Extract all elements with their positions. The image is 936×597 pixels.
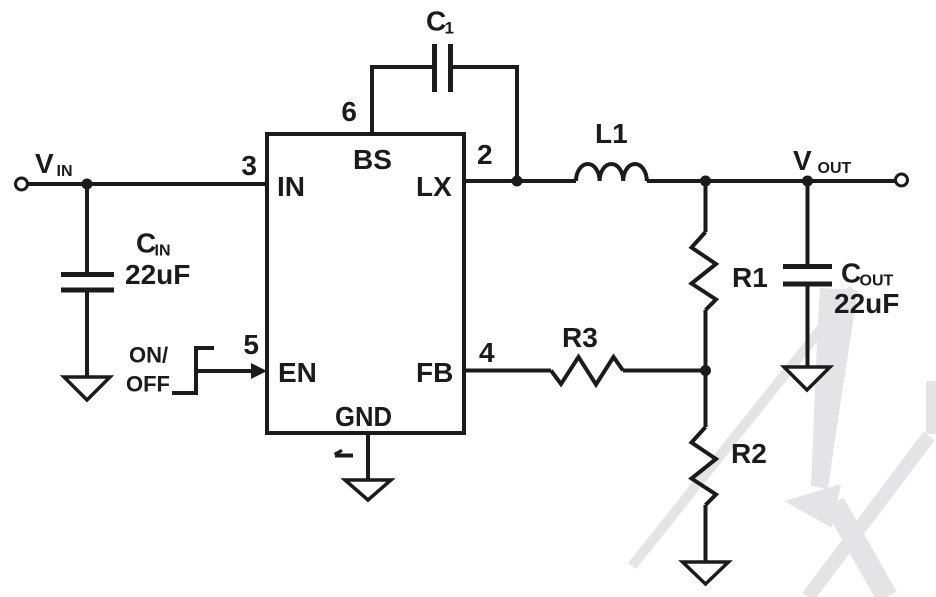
svg-text:GND: GND <box>335 401 392 432</box>
svg-text:V: V <box>35 148 54 179</box>
wire EN arrow <box>196 369 252 373</box>
wire R1 bottom <box>704 310 708 371</box>
watermark stroke D2 (tapered swoosh) <box>811 288 858 489</box>
capacitor COUT <box>783 267 832 285</box>
capacitor C1 <box>435 44 451 92</box>
svg-text:1: 1 <box>445 19 454 38</box>
label C1 <box>426 6 454 38</box>
watermark arrowhead <box>784 484 841 528</box>
wire input rail <box>29 182 268 186</box>
wire CIN bottom <box>85 292 89 377</box>
svg-text:C: C <box>841 258 861 289</box>
svg-text:R3: R3 <box>562 322 598 353</box>
watermark stroke D3 (thick X arm) <box>834 503 887 597</box>
wire R2 top <box>704 371 708 428</box>
svg-text:5: 5 <box>243 329 259 360</box>
watermark stroke D4 (X arm) <box>808 436 929 597</box>
arrowhead into EN <box>251 363 267 379</box>
wire GND pin <box>366 433 370 480</box>
svg-text:L1: L1 <box>595 118 628 149</box>
watermark stroke D1 (thin diagonal) <box>632 289 853 566</box>
svg-text:4: 4 <box>479 337 495 368</box>
svg-text:2: 2 <box>477 139 493 170</box>
resistor R3 <box>551 357 623 385</box>
op-amp U1 (regulator IC body) <box>267 134 464 433</box>
ground (CIN) <box>64 377 110 400</box>
svg-text:C: C <box>426 6 446 37</box>
wire C1 to LX node <box>451 67 518 181</box>
node VOUT terminal <box>896 174 908 186</box>
resistor R2 <box>692 427 717 505</box>
svg-text:BS: BS <box>353 144 392 175</box>
svg-text:R2: R2 <box>731 438 767 469</box>
node input junction <box>82 179 93 190</box>
label CIN <box>136 228 171 260</box>
svg-text:OFF: OFF <box>126 372 170 397</box>
resistor R1 <box>692 232 717 310</box>
wire CIN top <box>85 184 89 273</box>
node R1 junction <box>700 176 711 187</box>
wire R3 to node <box>623 369 706 373</box>
wire COUT bottom <box>806 286 810 367</box>
label VOUT <box>793 145 852 177</box>
svg-text:22uF: 22uF <box>834 288 899 319</box>
wire R2 bottom <box>704 505 708 562</box>
node FB junction <box>700 365 711 376</box>
svg-text:OUT: OUT <box>860 273 894 290</box>
svg-text:C: C <box>136 228 156 259</box>
capacitor CIN <box>61 275 114 291</box>
ground (COUT) <box>784 367 830 390</box>
svg-text:ON/: ON/ <box>129 343 168 368</box>
label VIN <box>35 148 73 180</box>
wire COUT top <box>806 181 810 265</box>
wire FB <box>464 369 551 373</box>
svg-text:OUT: OUT <box>818 160 852 177</box>
svg-text:IN: IN <box>57 163 73 180</box>
wire output rail <box>647 179 895 183</box>
step waveform symbol <box>172 348 214 393</box>
svg-text:6: 6 <box>341 96 357 127</box>
pin 1 label (rotated) <box>335 450 354 455</box>
svg-text:FB: FB <box>416 357 453 388</box>
svg-text:IN: IN <box>277 171 305 202</box>
node VOUT junction <box>802 176 813 187</box>
ground (IC GND) <box>345 480 391 500</box>
wire LX rail <box>464 179 576 183</box>
svg-text:V: V <box>793 145 812 176</box>
watermark edge vertical stub <box>926 381 936 434</box>
svg-text:EN: EN <box>278 357 317 388</box>
wire BS riser <box>372 67 434 134</box>
svg-text:R1: R1 <box>732 262 768 293</box>
inductor L1 <box>576 164 647 181</box>
wire R1 top <box>704 181 708 232</box>
svg-text:LX: LX <box>416 171 452 202</box>
svg-text:3: 3 <box>241 150 257 181</box>
svg-text:IN: IN <box>155 243 171 260</box>
svg-text:22uF: 22uF <box>125 259 190 290</box>
label ON/OFF <box>126 343 170 397</box>
node VIN terminal <box>16 178 28 190</box>
ground (R2) <box>683 562 729 584</box>
node LX junction <box>512 176 523 187</box>
label COUT <box>841 258 894 290</box>
